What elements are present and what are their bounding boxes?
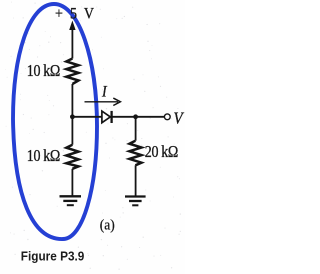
svg-text:I: I: [101, 84, 107, 101]
svg-text:(a): (a): [100, 217, 115, 234]
svg-text:+ 5 V: + 5 V: [55, 6, 96, 23]
svg-text:20 kΩ: 20 kΩ: [145, 143, 178, 161]
svg-text:Figure P3.9: Figure P3.9: [21, 249, 85, 264]
svg-text:10 kΩ: 10 kΩ: [27, 62, 60, 80]
svg-text:10 kΩ: 10 kΩ: [27, 147, 60, 165]
